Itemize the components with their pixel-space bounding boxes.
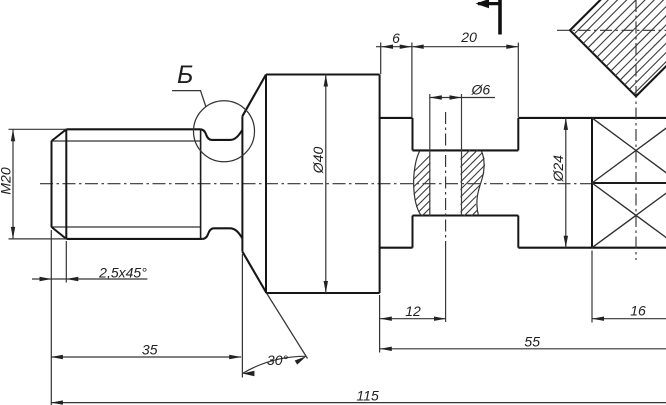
dim M20 arrow down bbox=[11, 227, 15, 239]
cylinder 40 top bbox=[266, 73, 380, 75]
groove bottom profile bbox=[203, 228, 243, 239]
dim 2.5x45 extension bbox=[65, 241, 67, 283]
bearing diagonal upper 1 bbox=[592, 118, 666, 183]
dim D40 arrow down bbox=[324, 281, 328, 293]
svg-text:12: 12 bbox=[405, 303, 421, 319]
groove right wall bbox=[241, 116, 243, 251]
extension line left end bbox=[50, 230, 52, 405]
hatch right blob bbox=[400, 130, 558, 220]
groove20 right wall lower bbox=[517, 216, 519, 248]
dim 55 arrow left bbox=[380, 347, 392, 351]
chamfer diagonal top bbox=[52, 129, 67, 141]
svg-text:115: 115 bbox=[356, 388, 379, 404]
cone extension line bbox=[267, 293, 308, 359]
extension line neck left up bbox=[380, 43, 382, 75]
dim 30 arc arrow left bbox=[242, 371, 254, 377]
dim 20 arrow left bbox=[412, 45, 424, 49]
groove top profile bbox=[201, 129, 243, 140]
cylinder 40 right face bbox=[379, 75, 381, 294]
dim 30 arc bbox=[242, 356, 306, 373]
dim 35 line bbox=[51, 356, 241, 358]
dim 12 arrow left bbox=[380, 317, 392, 321]
svg-text:2,5x45°: 2,5x45° bbox=[98, 265, 147, 281]
cone line top bbox=[242, 75, 266, 117]
dim 2.5x45 line bbox=[32, 278, 147, 280]
dim 16 line bbox=[592, 318, 666, 320]
dim M20 extension top bbox=[9, 128, 67, 130]
chamfer diagonal bottom bbox=[52, 227, 67, 239]
dim 55 line bbox=[380, 348, 666, 350]
ball detail rhombus bbox=[570, 0, 666, 96]
groove20 left wall lower bbox=[412, 216, 414, 248]
dim 20 arrow right bbox=[506, 45, 518, 49]
chamfer edge vertical bbox=[65, 129, 67, 239]
extension line bearing left bbox=[591, 251, 593, 323]
leader line B bbox=[172, 91, 206, 107]
svg-text:Ø6: Ø6 bbox=[471, 82, 491, 98]
detail circle B bbox=[194, 101, 255, 162]
rhombus hatch bbox=[499, 0, 666, 100]
groove20 right wall upper bbox=[517, 118, 519, 150]
section cut mark horizontal bbox=[478, 2, 500, 5]
dim D40 arrow up bbox=[324, 75, 328, 87]
cone line bottom bbox=[242, 252, 266, 293]
dim D24 line bbox=[565, 118, 567, 248]
dim D6 arrow right bbox=[450, 95, 462, 99]
dim M20 line bbox=[12, 129, 14, 239]
section cut arrowhead bbox=[476, 0, 490, 8]
thread end line bbox=[200, 129, 202, 239]
dim 16 arrow left bbox=[592, 317, 604, 321]
groove20 left wall upper bbox=[412, 118, 414, 150]
cone base edge bbox=[265, 75, 267, 294]
dim D40 line bbox=[325, 75, 327, 294]
hole center extension to dim 12 bbox=[445, 244, 447, 322]
dim 2.5x45 arrow left bbox=[66, 277, 78, 281]
neck top bbox=[380, 117, 413, 119]
svg-text:M20: M20 bbox=[0, 167, 14, 194]
dim 115 line bbox=[51, 402, 666, 404]
svg-text:16: 16 bbox=[630, 303, 646, 319]
dim 115 arrow left bbox=[51, 400, 63, 404]
svg-text:Ø24: Ø24 bbox=[550, 155, 566, 183]
break line left bbox=[414, 151, 421, 215]
hole right edge bbox=[461, 94, 463, 216]
svg-text:6: 6 bbox=[392, 30, 400, 46]
hatch left blob bbox=[368, 143, 503, 218]
groove20 top surface bbox=[413, 149, 519, 151]
dim D6 line bbox=[430, 97, 462, 99]
bearing middle line bbox=[592, 182, 666, 184]
bearing diagonal lower 2 bbox=[592, 183, 666, 248]
thread root thin line bottom bbox=[52, 226, 201, 228]
dim D6 tail bbox=[462, 97, 496, 99]
rhombus axis horizontal bbox=[557, 29, 666, 31]
dim M20 arrow up bbox=[11, 129, 15, 141]
dim 30 arc arrow right bbox=[295, 356, 307, 364]
dim 20 line bbox=[412, 46, 519, 48]
left end face bbox=[51, 141, 53, 227]
extension line cone start bbox=[241, 254, 243, 378]
thread root thin line top bbox=[52, 140, 201, 142]
bearing diagonal upper 2 bbox=[592, 118, 666, 183]
hole centerline bbox=[445, 112, 447, 244]
dim D6 arrow left bbox=[430, 95, 442, 99]
cylinder 40 bottom bbox=[266, 292, 380, 294]
dim 6 line bbox=[376, 46, 412, 48]
dim 12 line bbox=[380, 318, 446, 320]
thread outer line bottom bbox=[66, 238, 202, 240]
svg-text:55: 55 bbox=[524, 333, 540, 349]
break line right bbox=[477, 151, 484, 216]
dim 6 arrow right bbox=[400, 45, 412, 49]
svg-text:20: 20 bbox=[460, 29, 477, 45]
shaft 24 top bbox=[518, 117, 666, 119]
dim 35 arrow left bbox=[51, 355, 63, 359]
groove20 bottom surface bbox=[413, 214, 519, 216]
dim 6 arrow left bbox=[381, 45, 393, 49]
extension line groove20 left up bbox=[411, 43, 413, 118]
bearing left edge bbox=[591, 118, 593, 248]
svg-text:35: 35 bbox=[142, 341, 158, 357]
dim D24 arrow up bbox=[564, 118, 568, 130]
section cut mark vertical bbox=[498, 0, 502, 35]
dim D24 arrow down bbox=[564, 236, 568, 248]
dim 12 arrow right bbox=[434, 317, 446, 321]
centerline main axis bbox=[40, 183, 594, 185]
dim 2.5x45 arrow right bbox=[40, 277, 52, 281]
extension line cyl40 right bbox=[379, 295, 381, 353]
bearing axis vertical bbox=[635, 0, 637, 260]
svg-text:30°: 30° bbox=[267, 352, 289, 368]
extension line groove20 right up bbox=[517, 43, 519, 118]
hole left edge bbox=[429, 94, 431, 216]
shaft 24 bottom bbox=[518, 247, 666, 249]
neck bottom bbox=[380, 247, 413, 249]
svg-text:Б: Б bbox=[177, 61, 193, 89]
dim 35 arrow right bbox=[229, 355, 241, 359]
thread outer line top bbox=[66, 128, 200, 130]
dim M20 extension bottom bbox=[9, 238, 67, 240]
svg-text:Ø40: Ø40 bbox=[310, 147, 326, 175]
bearing diagonal lower 1 bbox=[592, 183, 666, 248]
